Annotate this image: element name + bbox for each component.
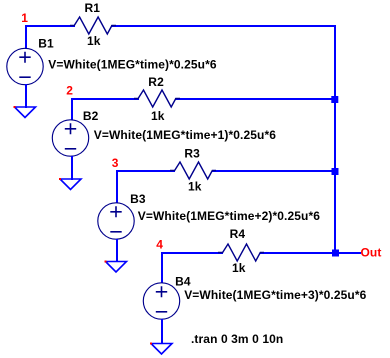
resistor R3 <box>170 162 216 179</box>
bsource B1 circle <box>7 48 43 84</box>
ground G4 red anchor dot <box>150 343 152 345</box>
svg-text:V=White(1MEG*time)*0.25u*6: V=White(1MEG*time)*0.25u*6 <box>48 57 217 71</box>
junction at bus row4 / Out <box>332 250 339 257</box>
wire node3 down to B3 <box>116 170 118 203</box>
svg-text:V=White(1MEG*time+2)*0.25u*6: V=White(1MEG*time+2)*0.25u*6 <box>138 209 320 223</box>
wire R4 right to bus junction <box>260 252 336 254</box>
svg-text:.tran 0 3m 0 10n: .tran 0 3m 0 10n <box>191 332 283 346</box>
wire B1 to ground <box>25 84 27 108</box>
B2 minus sign <box>65 148 76 150</box>
wire node1 down to B1 <box>25 25 27 49</box>
B4 plus sign <box>156 286 167 297</box>
bsource B2 circle <box>52 120 88 156</box>
svg-text:1k: 1k <box>87 34 101 48</box>
svg-text:Out: Out <box>361 246 382 260</box>
ground G1 red anchor dot <box>14 106 16 108</box>
B3 minus sign <box>110 231 121 233</box>
svg-text:2: 2 <box>66 84 73 98</box>
ground G4 <box>151 344 172 355</box>
wire node4 down to B4 <box>161 252 163 283</box>
svg-text:1k: 1k <box>232 261 246 275</box>
wire R1 right to bus <box>111 25 336 27</box>
ground G2 red anchor dot <box>59 178 61 180</box>
junction at bus row3 <box>332 168 339 175</box>
svg-text:1: 1 <box>21 11 28 25</box>
svg-text:1k: 1k <box>188 180 202 194</box>
svg-text:V=White(1MEG*time+1)*0.25u*6: V=White(1MEG*time+1)*0.25u*6 <box>94 128 276 142</box>
wire B4 to ground <box>161 319 163 344</box>
wire node4 to R4 left <box>161 252 223 254</box>
svg-text:1k: 1k <box>151 109 165 123</box>
wire R3 right to bus <box>212 170 336 172</box>
ground G1 <box>15 107 36 118</box>
svg-text:4: 4 <box>156 238 163 252</box>
B1 minus sign <box>19 76 30 78</box>
B4 minus sign <box>156 311 167 313</box>
bsource B4 circle <box>143 283 179 319</box>
wire junction to Out label <box>336 252 361 254</box>
wire node2 to R2 left <box>71 98 139 100</box>
svg-text:R3: R3 <box>184 147 200 161</box>
svg-text:B1: B1 <box>38 37 54 51</box>
B3 plus sign <box>110 206 121 217</box>
svg-text:R4: R4 <box>230 227 246 241</box>
ground G2 <box>60 179 81 190</box>
ground G3 red anchor dot <box>105 261 107 263</box>
svg-text:R2: R2 <box>148 75 164 89</box>
wire B2 to ground <box>71 156 73 180</box>
svg-text:B3: B3 <box>130 192 146 206</box>
wire node1 to R1 left <box>25 25 75 27</box>
svg-text:V=White(1MEG*time+3)*0.25u*6: V=White(1MEG*time+3)*0.25u*6 <box>184 288 366 302</box>
wire B3 to ground <box>116 239 118 262</box>
wire R2 right to bus <box>175 98 336 100</box>
junction at bus row2 <box>331 96 338 103</box>
wire node2 down to B2 <box>71 98 73 120</box>
ground G3 <box>106 262 127 273</box>
resistor R4 <box>218 244 264 261</box>
svg-text:R1: R1 <box>85 1 101 15</box>
resistor R1 <box>70 17 116 34</box>
B2 plus sign <box>65 123 76 134</box>
svg-text:3: 3 <box>112 156 119 170</box>
bsource B3 circle <box>98 203 134 239</box>
wire node3 to R3 left <box>116 170 175 172</box>
svg-text:B2: B2 <box>83 109 99 123</box>
B1 plus sign <box>19 52 30 63</box>
resistor R2 <box>134 90 180 107</box>
wire vertical bus <box>334 25 336 254</box>
svg-text:B4: B4 <box>175 275 191 289</box>
